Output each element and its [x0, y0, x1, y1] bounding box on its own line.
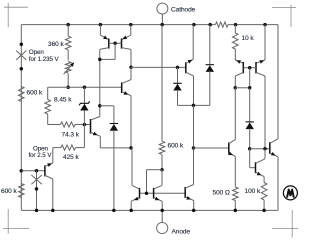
junction Q2 emitter at top rail [129, 23, 133, 27]
transistor Q7a bar [139, 188, 141, 199]
junction Q1 collector diode tie [98, 58, 102, 62]
wire diode row y105 [178, 104, 210, 106]
wire bottom rail [21, 209, 278, 211]
junction Q6 emitter at top rail [192, 23, 196, 27]
junction diode D2 top [176, 66, 180, 70]
junction Q8 emitter at bottom rail [192, 209, 196, 213]
wire D4 bottom segment [249, 129, 251, 149]
wire Q9 base tie [243, 67, 256, 69]
junction D1 at bottom rail [112, 209, 116, 213]
wire top rail left of R10k [21, 24, 215, 26]
wire 8.45k bottom lead [48, 114, 61, 125]
logo Motorola [283, 186, 297, 200]
wire Q6 emitter lead [192, 25, 194, 60]
wire D2 bottom segment [177, 90, 179, 106]
wire 8.45k top lead [47, 87, 49, 99]
label 425 k [63, 154, 79, 161]
wire 2.5V tap horizontal [21, 170, 45, 172]
transistor Q6 bar [185, 62, 187, 73]
wire 74.3k to base node [75, 124, 91, 126]
junction Q1 emitter at top rail [99, 23, 103, 27]
wire 10k top lead [234, 25, 236, 33]
wire D4 row [250, 148, 270, 150]
transistor Q6 collector down [186, 72, 194, 105]
label Anode [172, 229, 191, 236]
junction node A 74.3k/zener/425k [83, 123, 87, 127]
wire trim bottom lead [67, 74, 69, 88]
label 10 k [242, 35, 255, 42]
transistor Q4 collector up [122, 67, 131, 83]
transistor Q12 emitter down [270, 152, 278, 157]
junction D4 bottom node [248, 147, 252, 151]
transistor Q7a emitter down [131, 197, 139, 211]
junction anode node at bottom rail [160, 209, 164, 213]
resistor R1 600k upper-left [19, 86, 25, 101]
wire D1 to bottom rail [113, 130, 115, 210]
svg-text:Anode: Anode [172, 229, 191, 236]
junction diode row to Q6 collector [192, 104, 196, 108]
wire Q1 emitter lead [99, 25, 101, 36]
wire 425k riser [76, 125, 85, 148]
wire D3 bottom segment [209, 71, 211, 105]
transistor Q9b PNP [256, 60, 265, 149]
wire Q3 emitter row [100, 147, 131, 149]
resistor R10 10k series in top rail [216, 22, 229, 27]
wire 2.5V stub vertical [36, 171, 38, 211]
junction Q10 base node [192, 146, 196, 150]
wire cathode column lower [161, 154, 163, 169]
junction below 2.5V link [35, 187, 39, 191]
wire 425k left lead [53, 148, 61, 163]
junction stub at bottom rail [35, 209, 39, 213]
transistor Q3 bar [90, 119, 92, 134]
transistor Q3 emitter down [91, 132, 101, 148]
junction D3 at top rail [208, 23, 212, 27]
resistor R5 8.45k [45, 100, 51, 115]
wire collector row y67 [131, 66, 186, 68]
resistor R4 trim adjustable [64, 62, 75, 75]
svg-text:360 k: 360 k [48, 41, 64, 48]
wire Q3 collector to diode D1 [100, 106, 114, 124]
wire Q9a collector tie [235, 87, 249, 89]
junction base riser node [248, 86, 252, 90]
transistor Q5 bar [44, 165, 46, 176]
transistor Q7a collector up [132, 148, 140, 189]
transistor Q4 bar [121, 82, 123, 93]
svg-text:600 k: 600 k [1, 188, 17, 195]
transistor Q11 emitter down [256, 172, 265, 183]
wire top rail right of R10 [228, 24, 278, 26]
label 600 k upper [27, 89, 43, 96]
svg-text:74.3 k: 74.3 k [62, 131, 80, 138]
junction 500 ohm at bottom rail [234, 209, 238, 213]
transistor Q8 bar [184, 187, 186, 198]
junction 360k at top rail [66, 23, 70, 27]
transistor Q7b collector up [154, 170, 162, 189]
label 74.3 k [62, 131, 80, 138]
corner mark bottom-right [272, 210, 298, 238]
junction Q9 base [248, 66, 252, 70]
label Cathode [171, 7, 196, 14]
wire Q9 base riser [249, 68, 251, 88]
wire cathode column upper [161, 25, 163, 142]
transistor Q12 bar [269, 142, 271, 154]
junction below 1.235V link [20, 67, 24, 71]
diode D1 [110, 124, 118, 131]
open link X for 1.235 V [16, 51, 26, 60]
junction Q9a collector node [234, 86, 238, 90]
transistor Q5 emitter up [45, 163, 53, 167]
wire D2 top segment [177, 67, 179, 83]
wire D4 top segment [249, 88, 251, 122]
junction stub tee [35, 169, 39, 173]
wire zener top segment [83, 87, 85, 103]
junction Q2 collector node [129, 66, 133, 70]
transistor Q6 emitter up [186, 59, 193, 63]
transistor Q1 PNP [100, 35, 109, 116]
diode Z1 zener [79, 101, 90, 110]
transistor Q3 collector up [91, 117, 100, 121]
resistor R8 600k mid [159, 141, 165, 154]
junction cathode on top rail [160, 23, 164, 27]
resistor R11 500 ohm [233, 187, 239, 201]
wire anode stem [161, 210, 163, 222]
junction base tie [113, 42, 117, 46]
transistor Q4 emitter down [122, 91, 131, 148]
wire right border emitter segment [277, 157, 279, 211]
transistor Q9a PNP [235, 60, 243, 88]
wire base tie riser [100, 43, 115, 59]
svg-text:600 k: 600 k [27, 89, 43, 96]
corner mark bottom-left [3, 209, 29, 234]
junction emitter row node [129, 146, 133, 150]
wire Q1-Q2 base tie [109, 42, 122, 44]
transistor Q7b bar [153, 188, 155, 199]
wire 10k to Q9a emitter [234, 49, 236, 60]
transistor Q10 collector up [229, 140, 236, 144]
resistor R2 600k lower-left [19, 184, 25, 198]
open link X for 2.5 V [31, 175, 41, 184]
label 600 k lower [1, 188, 17, 195]
wire 500 ohm bottom lead [234, 201, 236, 211]
resistor R7 425k [61, 145, 76, 150]
wire between 360k and trim [67, 50, 69, 61]
transistor Q11 collector up [256, 149, 266, 164]
label 360 k [48, 41, 64, 48]
transistor Q12 collector up [270, 139, 278, 144]
label 600 k mid [168, 143, 184, 150]
junction Q9b emitter at top rail [263, 23, 267, 27]
wire 360k top lead [67, 25, 69, 37]
resistor R9 10k [233, 33, 239, 49]
terminal Anode [157, 222, 168, 233]
junction Q5 collector at bottom rail [51, 209, 55, 213]
diode D3 [206, 65, 214, 72]
svg-text:Cathode: Cathode [171, 7, 196, 14]
junction 600k bottom node [160, 168, 164, 172]
wire Q10 base [194, 147, 229, 149]
wire cathode stem [161, 14, 163, 25]
wire Q2 emitter lead [130, 25, 132, 36]
wire bias row y87 [48, 86, 122, 88]
wire Q6 collector to Q10 base [193, 105, 195, 148]
svg-text:100 k: 100 k [245, 188, 261, 195]
svg-text:8.45 k: 8.45 k [54, 96, 72, 103]
junction Q11 collector node [263, 147, 267, 151]
junction zener top [83, 85, 87, 89]
wire D3 top segment [209, 25, 211, 65]
svg-text:425 k: 425 k [63, 154, 79, 161]
svg-text:10 k: 10 k [242, 35, 255, 42]
resistor R3 360k [65, 36, 71, 50]
transistor Q5 collector down [45, 175, 53, 210]
svg-text:500 Ω: 500 Ω [213, 190, 230, 197]
svg-text:for 2.5 V: for 2.5 V [29, 152, 53, 159]
transistor Q2 PNP [122, 35, 132, 67]
junction Q3 collector node [98, 104, 102, 108]
terminal Cathode [157, 3, 168, 14]
label 8.45 k [54, 96, 72, 103]
junction left at 2.5V tap [20, 169, 24, 173]
diode D2 [173, 83, 181, 90]
resistor R12 100k [261, 183, 267, 201]
corner mark top-left [4, 3, 28, 27]
transistor Q11 bar [255, 162, 257, 173]
junction 10k at top rail [234, 23, 238, 27]
transistor Q10 bar [228, 143, 230, 154]
label 500 ohm [213, 190, 230, 197]
junction pair base [145, 192, 149, 196]
wire 100k bottom lead [263, 200, 265, 210]
label Open for 2.5 V [29, 145, 53, 158]
wire Q9b emitter lead [264, 25, 266, 60]
wire Q9a collector down [234, 88, 236, 140]
wire left main vertical [20, 25, 22, 211]
transistor Q8 emitter down [185, 196, 194, 210]
transistor Q7b emitter down [154, 197, 163, 211]
svg-text:600 k: 600 k [168, 143, 184, 150]
transistor Q10 emitter down [228, 152, 235, 187]
junction Q7a emitter at bottom rail [129, 209, 133, 213]
junction above 1.235V link [20, 42, 24, 46]
junction trim bottom [66, 85, 70, 89]
wire D4 corner to Q11 base [250, 149, 256, 168]
label Open for 1.235 V [29, 49, 60, 63]
wire pair base riser [147, 170, 163, 194]
junction 100k at bottom rail [262, 209, 266, 213]
wire zener bottom segment [83, 110, 85, 124]
wire pair base tie [140, 192, 186, 194]
corner mark top-right [272, 5, 296, 27]
wire right border collector segment [277, 25, 279, 139]
svg-text:for 1.235 V: for 1.235 V [29, 56, 60, 63]
diode D4 [246, 122, 254, 129]
resistor R6 74.3k [61, 122, 76, 127]
label 100 k [245, 188, 261, 195]
transistor Q8 collector up [185, 148, 193, 188]
